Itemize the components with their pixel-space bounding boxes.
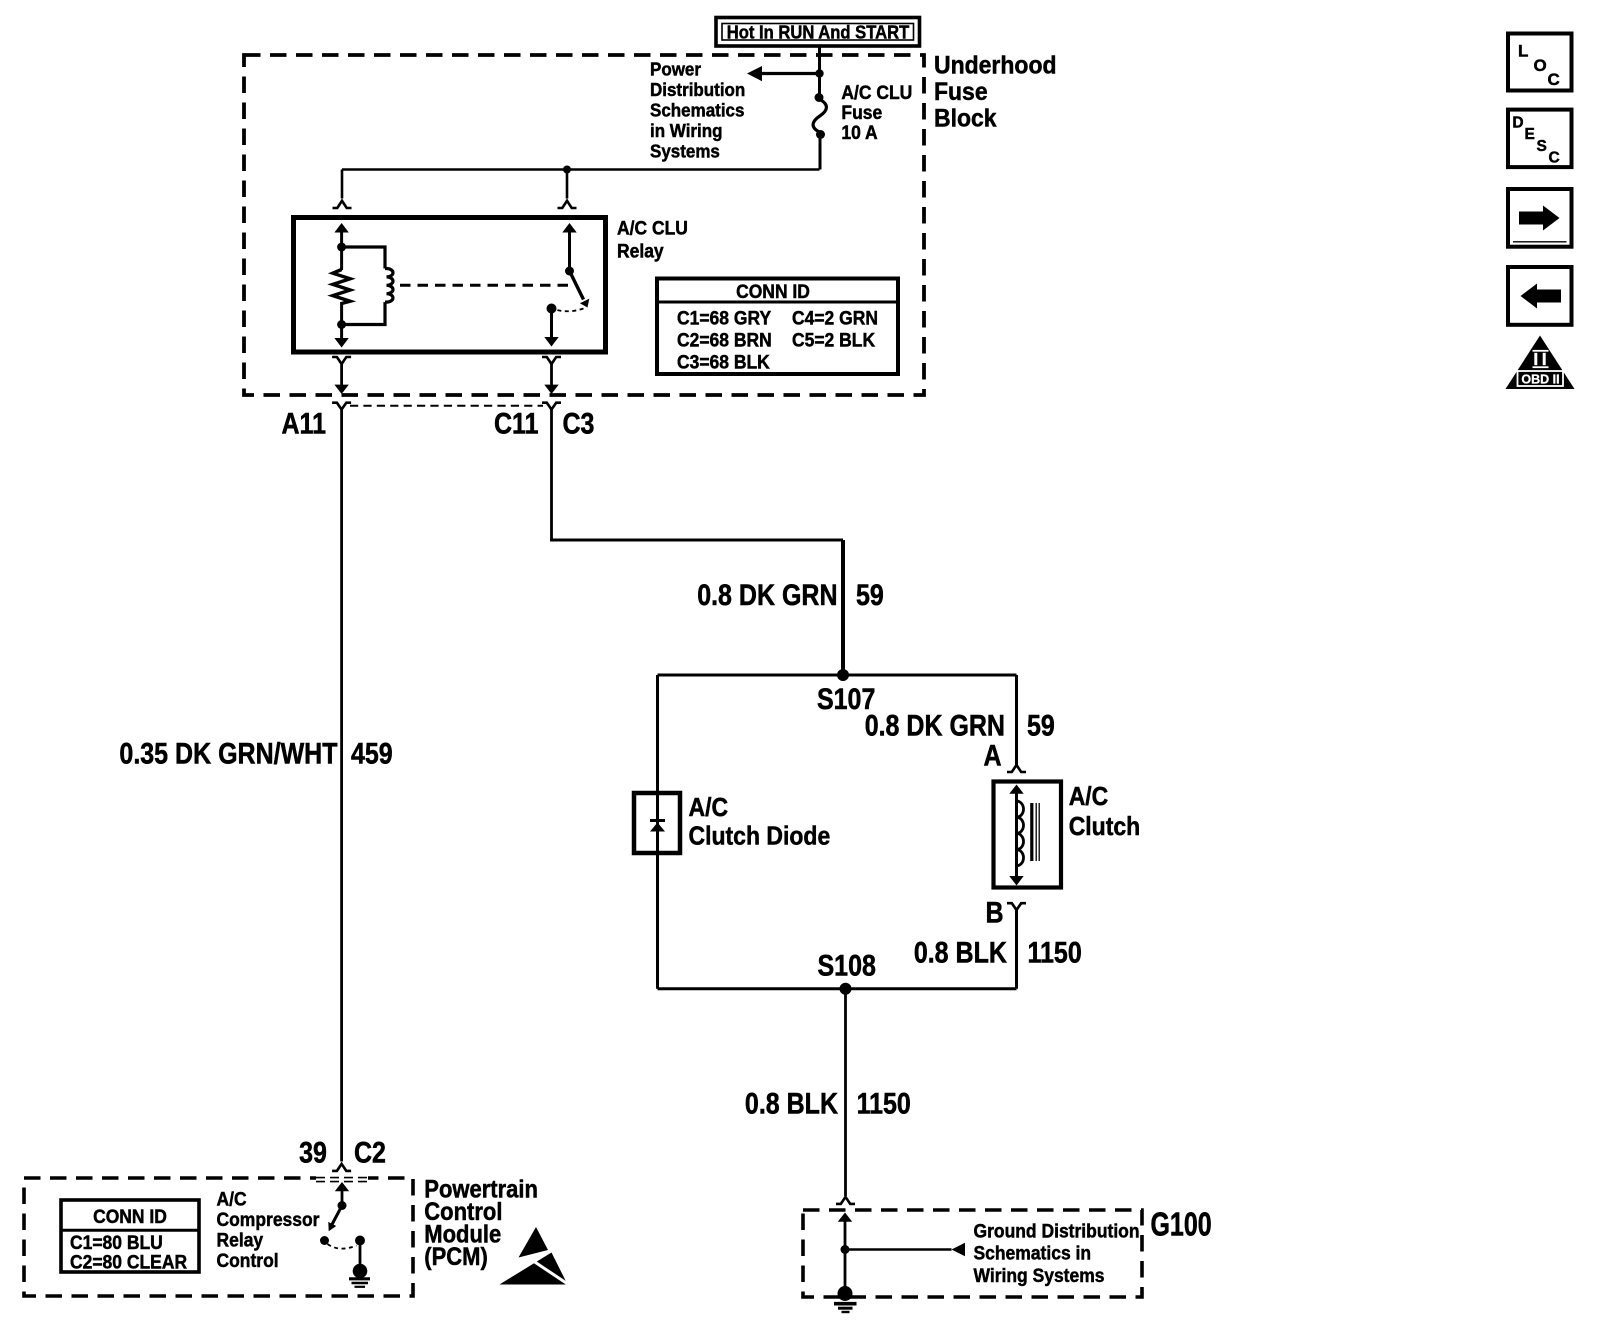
svg-text:CONN ID: CONN ID	[93, 1205, 167, 1227]
svg-text:(PCM): (PCM)	[424, 1243, 487, 1271]
svg-text:10 A: 10 A	[841, 121, 877, 143]
svg-text:1150: 1150	[857, 1086, 911, 1120]
svg-text:C2=68 BRN: C2=68 BRN	[677, 329, 772, 351]
svg-text:Distribution: Distribution	[650, 79, 745, 100]
svg-text:Relay: Relay	[617, 240, 664, 262]
svg-text:Relay: Relay	[217, 1229, 264, 1251]
svg-text:C: C	[1549, 150, 1560, 167]
svg-text:59: 59	[1027, 708, 1055, 742]
svg-text:0.8 BLK: 0.8 BLK	[745, 1086, 838, 1120]
svg-text:0.8 DK GRN: 0.8 DK GRN	[865, 708, 1005, 742]
svg-text:A11: A11	[282, 406, 326, 440]
svg-text:Block: Block	[934, 105, 997, 133]
svg-text:0.8 DK GRN: 0.8 DK GRN	[697, 578, 837, 612]
svg-text:Fuse: Fuse	[841, 101, 882, 123]
svg-text:C2=80 CLEAR: C2=80 CLEAR	[70, 1251, 188, 1273]
svg-text:0.35 DK GRN/WHT: 0.35 DK GRN/WHT	[119, 737, 337, 771]
svg-text:Systems: Systems	[650, 141, 720, 162]
svg-text:G100: G100	[1151, 1207, 1212, 1243]
svg-text:CONN ID: CONN ID	[736, 280, 810, 302]
svg-text:C1=68 GRY: C1=68 GRY	[677, 307, 772, 329]
svg-text:O: O	[1534, 56, 1547, 75]
svg-text:Wiring Systems: Wiring Systems	[974, 1264, 1105, 1286]
svg-text:in Wiring: in Wiring	[650, 120, 723, 141]
svg-text:E: E	[1525, 126, 1535, 143]
svg-text:A/C: A/C	[1069, 783, 1109, 811]
svg-text:S108: S108	[818, 948, 876, 982]
svg-text:Clutch Diode: Clutch Diode	[689, 822, 831, 850]
svg-text:Fuse: Fuse	[934, 78, 988, 106]
svg-text:C: C	[1548, 70, 1560, 89]
svg-text:0.8 BLK: 0.8 BLK	[914, 935, 1007, 969]
svg-text:Schematics in: Schematics in	[974, 1242, 1092, 1264]
svg-text:A/C: A/C	[217, 1188, 247, 1210]
svg-text:Ground Distribution: Ground Distribution	[974, 1220, 1140, 1242]
svg-text:Power: Power	[650, 59, 701, 80]
svg-text:Underhood: Underhood	[934, 51, 1057, 79]
svg-text:1150: 1150	[1028, 935, 1082, 969]
svg-text:C5=2 BLK: C5=2 BLK	[792, 329, 876, 351]
svg-text:C3: C3	[563, 406, 595, 440]
svg-text:L: L	[1518, 42, 1528, 61]
svg-text:A/C: A/C	[689, 794, 729, 822]
svg-text:D: D	[1512, 114, 1523, 131]
svg-text:Schematics: Schematics	[650, 100, 745, 121]
svg-text:Hot In RUN And START: Hot In RUN And START	[727, 22, 910, 43]
svg-text:B: B	[985, 895, 1003, 929]
svg-text:459: 459	[351, 737, 393, 771]
svg-text:A/C CLU: A/C CLU	[617, 217, 688, 239]
svg-text:OBD II: OBD II	[1521, 373, 1559, 387]
svg-text:59: 59	[856, 578, 884, 612]
svg-text:C11: C11	[494, 406, 538, 440]
svg-text:C2: C2	[354, 1135, 386, 1169]
svg-text:Clutch: Clutch	[1069, 813, 1141, 841]
svg-text:C3=68 BLK: C3=68 BLK	[677, 351, 770, 373]
svg-text:Compressor: Compressor	[217, 1208, 320, 1230]
svg-text:A: A	[983, 738, 1001, 772]
svg-text:C4=2 GRN: C4=2 GRN	[792, 307, 878, 329]
svg-text:39: 39	[299, 1135, 327, 1169]
svg-text:Control: Control	[217, 1249, 279, 1271]
svg-text:A/C CLU: A/C CLU	[841, 81, 912, 103]
svg-text:S: S	[1537, 138, 1547, 155]
